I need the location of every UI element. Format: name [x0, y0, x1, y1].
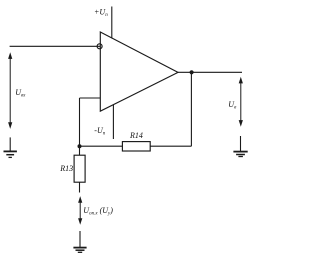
- wire noninverting input vertical: [79, 98, 81, 155]
- wire feedback vertical: [190, 72, 192, 146]
- ground bottom: [73, 248, 86, 253]
- op-amp inverting input circle: [97, 44, 102, 49]
- resistor R14: [122, 142, 150, 151]
- node Uin voltage arrow: [8, 52, 12, 129]
- wire to right ground: [240, 136, 242, 152]
- resistor R13: [74, 155, 85, 182]
- wire negative supply stub: [112, 105, 114, 139]
- label R14: [129, 131, 143, 140]
- label R13: [59, 164, 73, 173]
- label Uout: [228, 100, 237, 111]
- svg-text:R13: R13: [59, 164, 73, 173]
- wire below R13: [79, 182, 81, 192]
- label -Un supply: [94, 126, 105, 137]
- svg-text:R14: R14: [129, 131, 143, 140]
- wire to bottom ground: [79, 231, 81, 247]
- op-amp U1: [100, 32, 178, 111]
- label Uin: [15, 88, 26, 99]
- node Uop voltage arrow: [78, 196, 82, 225]
- node Uout voltage arrow: [239, 77, 243, 127]
- wire positive supply stub: [111, 7, 113, 39]
- wire input left: [10, 45, 101, 47]
- ground right: [233, 152, 247, 157]
- label +Un supply: [94, 7, 108, 17]
- label Uop (Uy): [83, 206, 113, 217]
- wire feedback horizontal right: [150, 145, 191, 147]
- wire feedback horizontal left: [80, 145, 123, 147]
- wire output: [178, 71, 242, 73]
- wire to left ground: [9, 137, 11, 151]
- junction output node: [190, 70, 194, 74]
- junction feedback node: [78, 144, 82, 148]
- ground left: [4, 151, 17, 157]
- wire noninverting input horizontal: [80, 97, 101, 99]
